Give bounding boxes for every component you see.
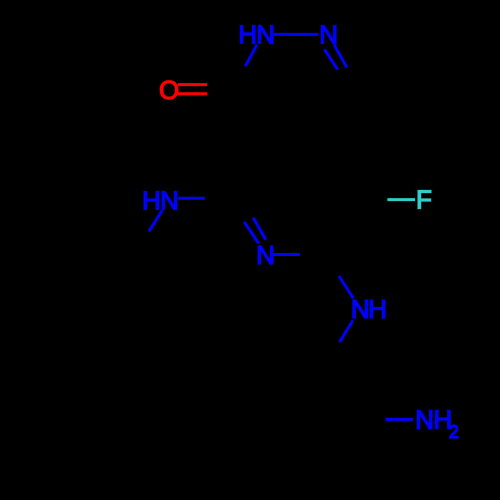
bond C3=O double, bottom line (red half) — [178, 92, 207, 95]
bond HN-C4' (blue half, horizontal) — [178, 197, 205, 200]
bond C5'-F (cyan half, horizontal) — [387, 198, 415, 201]
bond N1=C6 double, main line (blue half) — [334, 44, 347, 67]
svg-text:HN: HN — [142, 186, 178, 216]
bond N1=C6 double, inner line (blue half) — [324, 49, 338, 69]
bond NH-CH (blue half, down-left) — [340, 320, 353, 342]
svg-text:NH: NH — [415, 404, 452, 434]
bond C2'-NH (blue half, diagonal) — [339, 276, 353, 298]
bond C4'=N1' double, main line (blue half) — [253, 218, 266, 240]
bond CH-NH2 (blue half, horizontal) — [386, 418, 413, 421]
bond C4'=N1' double, inner line (blue half) — [244, 222, 258, 244]
bond C3=O double, top line (red half) — [178, 83, 207, 86]
bond N2-N1 (blue, horizontal) — [273, 33, 319, 36]
svg-text:O: O — [159, 75, 179, 105]
svg-text:NH: NH — [351, 294, 386, 324]
bond N2-C3 (blue half, down-left from HN) — [245, 45, 257, 67]
svg-text:N: N — [256, 240, 275, 270]
svg-text:F: F — [416, 185, 432, 215]
bond N1'-C2' (blue half, horizontal) — [272, 253, 300, 256]
svg-text:2: 2 — [449, 422, 459, 442]
bond HN-cyclohexyl (blue half, down-left) — [149, 210, 163, 231]
